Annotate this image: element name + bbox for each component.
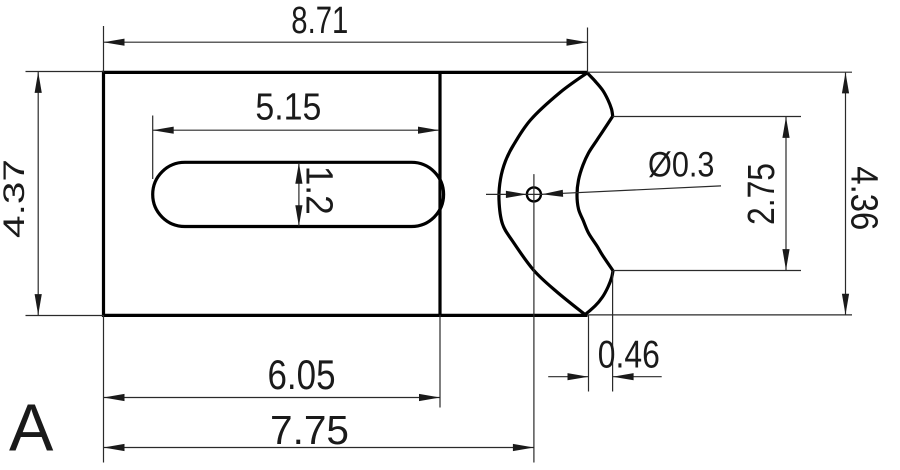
slot (obround cutout) <box>153 162 444 226</box>
dimension 6.05 line <box>104 397 441 399</box>
svg-text:4.36: 4.36 <box>843 166 885 230</box>
dimension 4.37 arrow up <box>35 72 42 93</box>
svg-text:8.71: 8.71 <box>291 0 348 42</box>
dimension 2.75 arrow up <box>782 117 789 138</box>
dimension 1.2 line <box>298 163 300 227</box>
svg-text:6.05: 6.05 <box>268 351 336 398</box>
dimension 7.75 arrow left <box>104 444 125 451</box>
dimension 0.46 arrow right <box>613 373 634 380</box>
svg-text:4.37: 4.37 <box>0 159 31 238</box>
svg-text:Ø0.3: Ø0.3 <box>648 146 715 185</box>
dimension 4.37 arrow down <box>35 294 42 315</box>
dimension 8.71 arrow right <box>567 39 588 46</box>
dimension 4.36 arrow up <box>842 72 849 93</box>
svg-text:2.75: 2.75 <box>741 163 783 225</box>
part outline: left rectangle body <box>104 72 588 315</box>
dimension 4.36 extension line bottom <box>588 314 853 316</box>
part outline: big left arc of right end <box>499 73 587 315</box>
dimension 4.37 extension line top <box>26 71 104 73</box>
part outline: top tip arc <box>587 73 612 117</box>
dimension 8.71 line <box>104 41 588 43</box>
dimension 4.37 extension line bottom <box>26 315 104 317</box>
dimension 8.71 extension line left <box>103 26 105 73</box>
hole crosshair horizontal <box>486 193 543 195</box>
dimension 5.15 extension line left <box>152 116 154 180</box>
left bottom extension line (6.05 / 7.75) <box>103 315 105 463</box>
dimension 2.75 line <box>785 117 787 270</box>
dimension 4.37 line <box>37 72 39 315</box>
dimension 0.46 extension line left <box>588 315 590 392</box>
part edge: inner vertical line <box>438 72 441 315</box>
dimension 0.46 arrow left <box>568 373 589 380</box>
crosshair arrow at hole left <box>506 191 527 198</box>
dimension 8.71 arrow left <box>104 39 125 46</box>
dimension 4.36 extension line top <box>588 71 853 73</box>
dimension 0.46 line left segment <box>548 376 588 378</box>
dimension 2.75 arrow down <box>782 249 789 270</box>
dimension 2.75 extension line top <box>613 116 802 118</box>
leader arrow at hole right <box>542 190 563 198</box>
svg-text:A: A <box>9 391 54 465</box>
dimension 5.15 line <box>153 129 439 131</box>
part outline: bottom tip arc <box>585 271 613 315</box>
hole circle <box>527 187 541 201</box>
dimension 6.05 extension line right <box>439 315 441 408</box>
svg-text:5.15: 5.15 <box>255 86 321 128</box>
dimension 1.2 arrow up <box>295 163 302 184</box>
dimension 2.75 extension line bottom <box>613 270 801 272</box>
leader line for hole diameter <box>542 186 721 194</box>
dimension 0.46 extension line right <box>612 271 614 392</box>
dimension 0.46 line right segment <box>613 376 662 378</box>
dimension 7.75 arrow right <box>513 444 534 451</box>
dimension 4.36 line <box>845 73 847 315</box>
part outline: concave arc <box>577 116 613 271</box>
dimension 5.15 arrow right <box>418 127 439 134</box>
dimension 5.15 arrow left <box>153 127 174 134</box>
svg-text:1.2: 1.2 <box>298 166 340 215</box>
dimension 6.05 arrow right <box>419 394 440 401</box>
dimension 8.71 extension line right <box>587 28 589 73</box>
dimension 4.36 arrow down <box>842 294 849 315</box>
hole crosshair vertical / 7.75 extension line <box>533 174 535 462</box>
svg-text:0.46: 0.46 <box>598 334 660 377</box>
dimension 7.75 line <box>104 447 534 449</box>
dimension 6.05 arrow left <box>104 394 125 401</box>
dimension 1.2 arrow down <box>295 205 302 226</box>
svg-text:7.75: 7.75 <box>270 407 349 453</box>
